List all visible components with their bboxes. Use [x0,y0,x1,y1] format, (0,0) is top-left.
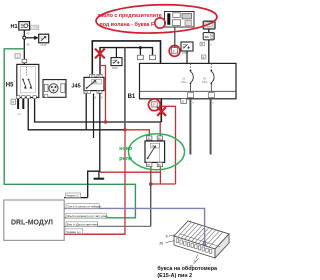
pin 87 of new relay [147,162,152,166]
wire (black): DRL black lead [64,197,88,199]
red circle around top F pin [169,46,180,57]
front face [174,236,215,258]
B1 internal bus line [140,90,237,92]
component: headlight leveling motor box right of H5 [43,80,66,98]
top face [174,221,229,249]
pin 86 of new relay [157,136,162,140]
wire: H5 unused stub 1 [17,99,19,109]
svg-text:N720: N720 [32,26,39,30]
svg-text:реле: реле [119,156,132,162]
wire: H5 unused stub 2 [22,99,24,109]
B1 top pin box 2 [149,55,155,59]
pin 86 of J45 [97,74,102,77]
wire: drop from junction to B1 top pin [139,48,141,56]
component H5 light switch box [17,64,39,97]
B1 internal contact 1 [190,63,192,69]
svg-text:(Е15-А) пин 2: (Е15-А) пин 2 [157,273,192,279]
svg-text:B: B [203,55,205,59]
svg-text:F30A: F30A [181,81,187,84]
label: B pin box upper [200,42,205,46]
wire: J45 pin30 supply up and across to B1 [92,41,160,78]
wire (red): new tap from pin86 wire down to upper horizontal [100,66,106,123]
component: battery icon box top right [203,21,215,29]
wire (red): relay pin 85 down [159,167,161,184]
pin 30 of J45 [90,74,95,77]
svg-text:под волана - буква F: под волана - буква F [100,21,156,28]
component: new relay box [145,141,165,162]
component B1 fuse/relay unit box [140,63,237,98]
svg-text:DRL-МОДУЛ: DRL-МОДУЛ [11,220,53,227]
component: BA fuse box [203,33,214,40]
wire: J45 pin86 up, across mid horizontal to B1 pin [100,48,153,78]
red X cut mark over J45 pin86 wire [95,49,105,59]
svg-text:Син (+) сигнал от габарит: Син (+) сигнал от габарит [67,205,102,209]
label: wire label Cheren [65,193,80,198]
wire: green feed from H1 node to DRL yellow-green input (long L path) [4,49,135,218]
pin 85 of new relay [157,162,162,166]
label: wire label Cherven [65,229,83,234]
svg-text:J45: J45 [71,83,80,89]
wire: arrow branch to clock box [26,37,35,39]
H5 bottom pin boxes [16,96,19,99]
component: tachometer connector (isometric) [174,221,229,258]
wire: J45 pin85 down, left, down to DRL black label [88,93,100,197]
label: connector 8 box left of H5 bottom [11,99,16,104]
svg-text:F30A: F30A [202,81,208,84]
top face ribs [178,222,224,247]
wire: H5 high-beam wire to B1 (upper horizontal) [35,99,162,122]
component: DRL module box [4,200,64,240]
wire (blue): visible over connector top face into pin [204,228,206,242]
wire: J45 87A riser joining lower bus [85,93,87,129]
B1 top pin box 1 [137,55,143,59]
node: junction on H1 wire [23,36,26,39]
wire (red): tap to new relay pin 30 [125,130,149,136]
pin box on H5 top [22,59,27,62]
svg-text:H1: H1 [11,24,18,30]
green ellipse around new relay [129,134,185,170]
svg-text:9: 9 [166,235,168,239]
wire: B1 gray stub 2 [210,99,212,155]
front face pin holes [176,239,212,254]
wire: thick gray bus down to new-relay tap [124,48,126,130]
wire (red): horizontal link at y172 [100,171,161,173]
red circle around letter F [155,18,165,28]
svg-text:+: + [117,60,120,66]
red circle around bottom F pin [148,99,160,111]
svg-text:1T20: 1T20 [40,43,47,47]
wire (red): long feed down to DRL red input [64,130,125,234]
wire (red): tap above cut to right vertical down [161,106,175,184]
component: accessory +box 1 [111,58,122,66]
label: wire label Byal [66,222,98,227]
label: wire label Zhalto-zelena [66,213,106,218]
svg-text:табло с предпазителите: табло с предпазителите [98,12,162,19]
svg-text:H5: H5 [6,83,14,89]
wire (dark red): relay pin 87 down to junction [150,167,152,184]
wire: J45 middle stub down [93,93,95,138]
right face [215,234,229,258]
wire: battery box to BA box [208,29,210,33]
wire (red): relay pin 86 up to old wire corner [159,122,161,136]
svg-text:Черен (-): Черен (-) [66,194,78,198]
pin 30 of new relay [147,136,152,140]
component: accessory +box 2 [181,42,193,51]
wire (red): horizontal at y184 [151,183,176,185]
label: N720 tag [31,25,39,29]
wire: horn H1 feed vertical [23,30,25,65]
B1 internal contact 2 [210,63,212,69]
wire (red): DRL red lead stub [64,233,125,235]
svg-text:87A: 87A [84,91,89,94]
wire: H5 output to relay-30 feed (lower horizontal bus) [28,99,125,130]
B1 internal bottom pin boxes [188,93,194,98]
red X cut mark on B1 output [157,107,166,116]
B1 bottom pin F label [152,102,157,107]
svg-text:n.c.: n.c. [17,113,21,116]
node: junction on mid horizontal [139,46,142,49]
B1 top pin F label [172,48,178,54]
B1 bottom pin E label [181,99,187,104]
svg-text:Бял (+)Дълги светлини: Бял (+)Дълги светлини [67,223,98,227]
svg-text:+: + [187,45,190,51]
svg-text:20: 20 [159,241,163,245]
wire: B1 output with cut mark, down then left to H5 wire [160,99,162,122]
component J45 relay box [84,77,104,90]
component: clock / accessory box fed by arrow [39,34,49,43]
node: red tap dot on upper horizontal [104,120,107,123]
svg-text:E: E [182,100,184,104]
svg-text:B1: B1 [128,94,136,100]
svg-text:B: B [201,42,203,46]
wire (gray): DRL white lead [64,225,151,227]
node: red junction below relay [149,182,153,186]
wire (blue): DRL blue lead to tachometer connector [64,208,205,243]
wire: fuse box to F pin [174,27,176,48]
red ellipse annotation: fuse panel under steering wheel [96,3,218,35]
wire: B1 gray stub 1 [189,99,191,155]
svg-text:Червен (+): Червен (+) [66,230,80,234]
wire: stub to accessory plus box [115,48,117,58]
label: connector 1 box above H5 [15,54,20,58]
svg-text:ново: ново [119,146,133,152]
component: fuse box drawing inside ellipse [165,12,195,28]
wire (gray): relay pin 87 continuation to DRL white input [150,184,152,226]
label: B pin box lower [201,55,206,59]
label: wire label Sin [66,204,99,209]
node: red junction of bus and lower horizontal [123,128,126,131]
svg-text:букса на оборотомера: букса на оборотомера [157,265,218,272]
wire: +box2 down to B1 [186,51,188,63]
svg-text:Жълто-зелена (+) от зап. ключ: Жълто-зелена (+) от зап. ключ [67,214,108,218]
wire: BA box down to B1 [208,40,210,64]
pin 87A 87 of J45 [84,91,91,94]
pin 85 of J45 [97,91,102,94]
ground symbol on J45 pin85 path [98,171,100,178]
component H1 horn box [19,22,30,30]
svg-text:1502: 1502 [112,66,118,70]
